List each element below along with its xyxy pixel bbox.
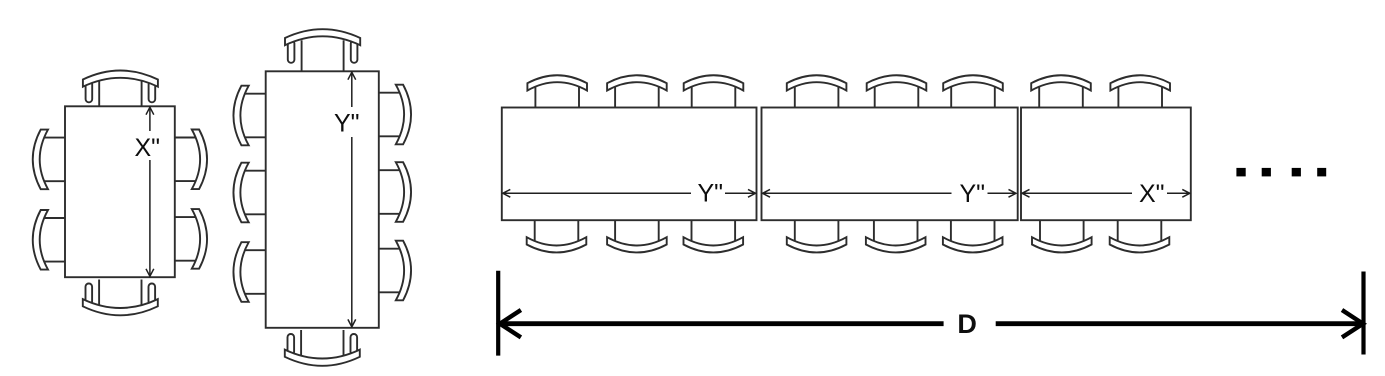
chair RA top 2 <box>607 75 667 107</box>
chair T1 right side 1 <box>175 130 207 190</box>
chair T1 bottom armchair <box>83 280 158 316</box>
table RC (row table 3, X-inch) <box>1021 108 1191 221</box>
chair T2 left side 2 <box>233 163 265 223</box>
chair T1 right side 2 <box>175 209 207 269</box>
dimension D arrow line <box>499 321 1363 326</box>
chair T2 bottom armchair <box>285 330 360 366</box>
chair RB top 1 <box>787 75 847 107</box>
chair RA bottom 3 <box>684 220 744 252</box>
table T1 (X-inch table, left) <box>65 106 175 277</box>
chair RC bottom 1 <box>1032 220 1092 252</box>
svg-text:Y": Y" <box>698 180 724 208</box>
dimension D extension bar right <box>1361 272 1365 355</box>
chair RB top 3 <box>943 75 1003 107</box>
dimension arrow Y (table T2 vertical) <box>348 72 356 327</box>
table T2 (Y-inch table, second from left) <box>266 71 379 328</box>
chair T2 right side 3 <box>379 241 411 301</box>
chair RC top 2 <box>1110 75 1170 107</box>
chair RA top 3 <box>684 75 744 107</box>
svg-text:Y": Y" <box>334 110 360 138</box>
ellipsis dot 3 <box>1292 168 1301 177</box>
chair T2 right side 2 <box>379 162 411 222</box>
chair RB top 2 <box>867 75 927 107</box>
dimension D arrowheads <box>500 310 1363 337</box>
chair T2 top armchair <box>285 29 360 71</box>
chair RA bottom 1 <box>527 220 587 252</box>
dimension D extension bar left <box>496 271 500 356</box>
chair T2 right side 1 <box>379 85 411 145</box>
ellipsis dot 1 <box>1236 168 1245 177</box>
chair RB bottom 2 <box>866 220 926 252</box>
chair T1 left side 2 <box>33 210 65 270</box>
dimension arrow Y (row table RB horizontal) <box>763 189 1017 197</box>
chair RB bottom 1 <box>787 220 847 252</box>
chair T1 left side 1 <box>33 130 65 190</box>
table RB (row table 2, Y-inch) <box>762 108 1018 221</box>
chair RC top 1 <box>1031 75 1091 107</box>
svg-text:X": X" <box>135 134 161 162</box>
svg-text:X": X" <box>1139 180 1165 208</box>
chair T2 left side 3 <box>233 242 265 302</box>
table RA (row table 1, Y-inch) <box>502 108 757 221</box>
chair RA bottom 2 <box>607 220 667 252</box>
chair RC bottom 2 <box>1110 220 1170 252</box>
dimension arrow X (table T1 vertical) <box>146 107 154 276</box>
chair RA top 1 <box>527 75 587 107</box>
ellipsis dot 2 <box>1262 168 1271 177</box>
svg-text:D: D <box>957 309 977 339</box>
ellipsis dot 4 <box>1317 168 1326 177</box>
dimension arrow Y (row table RA horizontal) <box>503 189 756 197</box>
chair RB bottom 3 <box>943 220 1003 252</box>
chair T2 left side 1 <box>233 86 265 146</box>
chair T1 top armchair <box>83 71 158 107</box>
svg-text:Y": Y" <box>960 180 986 208</box>
dimension arrow X (row table RC horizontal) <box>1022 189 1190 197</box>
